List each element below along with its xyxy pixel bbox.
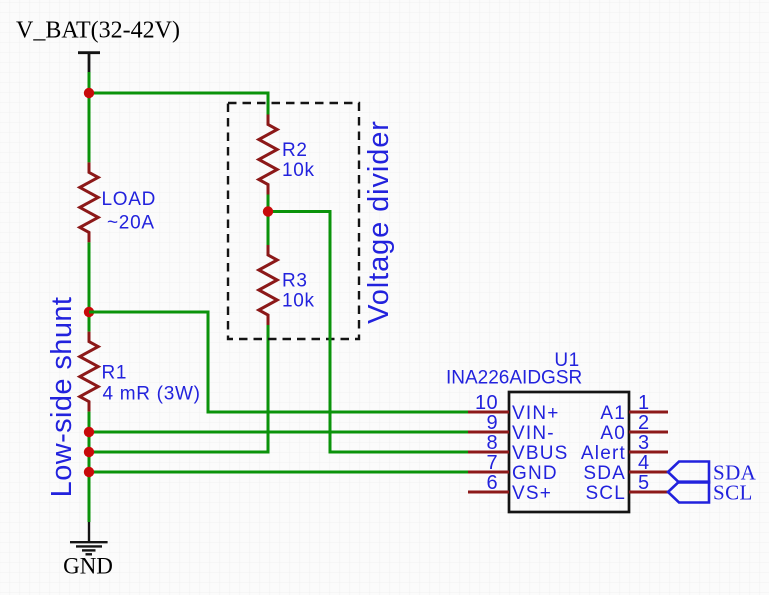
wire top horizontal to divider	[89, 93, 268, 115]
svg-text:A0: A0	[600, 423, 626, 444]
net flag SCL	[668, 482, 709, 503]
svg-text:R3: R3	[282, 270, 308, 291]
node junction R1 top	[84, 307, 94, 317]
svg-text:INA226AIDGSR: INA226AIDGSR	[446, 368, 582, 389]
svg-text:R1: R1	[102, 363, 128, 384]
wire junction to VIN+	[89, 312, 468, 412]
svg-text:VIN+: VIN+	[512, 403, 560, 424]
resistor R3	[259, 245, 277, 325]
pin 1 stub	[629, 411, 668, 414]
svg-text:10k: 10k	[282, 160, 315, 181]
svg-text:Low-side shunt: Low-side shunt	[46, 297, 78, 498]
svg-text:LOAD: LOAD	[102, 189, 157, 210]
svg-text:A1: A1	[600, 403, 626, 424]
svg-text:8: 8	[486, 432, 498, 454]
wire R3-bottom to GND column	[89, 325, 268, 452]
svg-text:3: 3	[638, 432, 650, 454]
pin 3 stub	[629, 451, 668, 454]
svg-text:~20A: ~20A	[107, 213, 155, 234]
svg-text:VS+: VS+	[512, 483, 552, 504]
pin 6 stub	[468, 491, 509, 494]
power symbol V_BAT bar	[78, 53, 100, 72]
wire LOAD to R1 junction	[88, 242, 91, 331]
svg-text:10k: 10k	[282, 290, 315, 311]
svg-text:10: 10	[475, 392, 498, 414]
node junction GND row	[84, 467, 94, 477]
svg-text:9: 9	[486, 412, 498, 434]
svg-text:VBUS: VBUS	[512, 443, 569, 464]
svg-text:4 mR (3W): 4 mR (3W)	[103, 384, 201, 405]
svg-text:7: 7	[486, 452, 498, 474]
pin 5 stub	[629, 491, 668, 494]
pin 9 stub	[468, 431, 509, 434]
node junction at y452	[84, 447, 94, 457]
pin 8 stub	[468, 451, 509, 454]
svg-text:SCL: SCL	[585, 483, 626, 504]
resistor R1	[80, 332, 98, 412]
svg-text:6: 6	[486, 472, 498, 494]
svg-text:2: 2	[638, 412, 650, 434]
svg-text:R2: R2	[282, 140, 308, 161]
svg-text:GND: GND	[63, 554, 113, 579]
pin 7 stub	[468, 471, 509, 474]
node junction VIN-	[84, 427, 94, 437]
pin 2 stub	[629, 431, 668, 434]
wire main vertical top	[88, 72, 91, 162]
IC U1 box	[509, 392, 629, 512]
net flag SDA	[668, 462, 709, 483]
wire R1 bottom to GND run	[88, 412, 91, 522]
wire R2 to R3	[267, 195, 270, 246]
resistor LOAD	[80, 162, 98, 242]
svg-text:V_BAT(32-42V): V_BAT(32-42V)	[16, 18, 180, 44]
node junction divider tap	[263, 206, 273, 216]
wire VIN- row	[89, 431, 468, 434]
svg-text:4: 4	[638, 452, 650, 474]
node junction top	[84, 88, 94, 98]
svg-text:SCL: SCL	[713, 481, 753, 505]
svg-text:SDA: SDA	[583, 463, 626, 484]
pin 10 stub	[468, 411, 509, 414]
svg-text:GND: GND	[512, 463, 558, 484]
svg-text:Alert: Alert	[581, 443, 626, 464]
svg-text:Voltage divider: Voltage divider	[363, 120, 395, 324]
svg-text:VIN-: VIN-	[512, 423, 555, 444]
svg-text:5: 5	[638, 472, 650, 494]
wire divider tap to VBUS	[268, 212, 468, 453]
wire GND pin row	[89, 471, 468, 474]
resistor R2	[259, 115, 277, 195]
dashed box voltage divider	[228, 103, 359, 339]
ground symbol	[70, 522, 108, 554]
pin 4 stub	[629, 471, 668, 474]
svg-text:1: 1	[638, 392, 650, 414]
